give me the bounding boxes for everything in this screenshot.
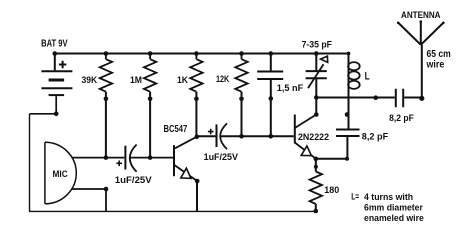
- svg-text:6mm diameter: 6mm diameter: [364, 203, 423, 214]
- svg-text:1M: 1M: [130, 75, 142, 85]
- svg-text:39K: 39K: [82, 75, 98, 85]
- svg-text:8,2 pF: 8,2 pF: [362, 132, 389, 142]
- svg-text:1,5 nF: 1,5 nF: [277, 83, 304, 93]
- svg-text:enameled wire: enameled wire: [364, 213, 424, 224]
- svg-text:4 turns with: 4 turns with: [364, 192, 413, 203]
- svg-text:BC547: BC547: [164, 123, 188, 135]
- svg-text:7-35 pF: 7-35 pF: [302, 39, 333, 49]
- svg-text:1K: 1K: [177, 75, 188, 85]
- svg-text:L=: L=: [351, 192, 359, 203]
- svg-text:MIC: MIC: [53, 169, 68, 179]
- svg-text:1uF/25V: 1uF/25V: [204, 152, 239, 162]
- svg-text:2N2222: 2N2222: [298, 132, 329, 143]
- svg-text:12K: 12K: [216, 74, 230, 84]
- svg-text:BAT 9V: BAT 9V: [41, 38, 68, 49]
- svg-text:ANTENNA: ANTENNA: [401, 10, 441, 21]
- svg-text:8,2 pF: 8,2 pF: [389, 113, 414, 123]
- svg-text:1uF/25V: 1uF/25V: [115, 174, 153, 185]
- svg-text:180: 180: [324, 185, 339, 195]
- svg-text:L: L: [365, 71, 370, 83]
- svg-text:65 cm: 65 cm: [427, 49, 451, 60]
- svg-text:wire: wire: [426, 60, 445, 71]
